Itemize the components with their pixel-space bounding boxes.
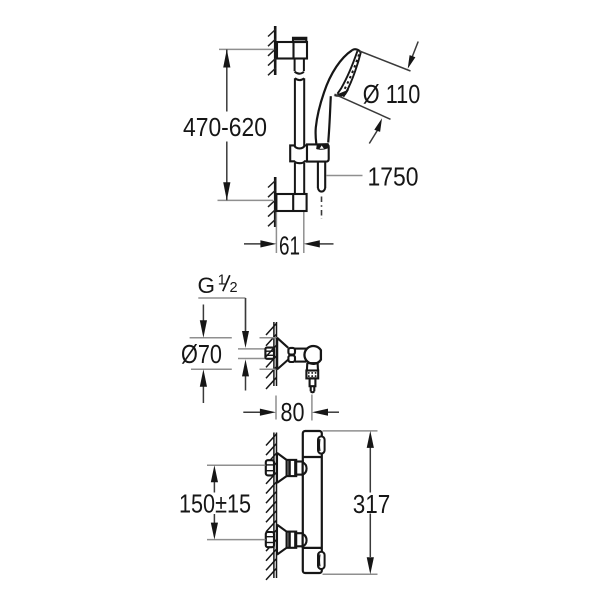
svg-text:317: 317 <box>353 491 391 519</box>
svg-text:61: 61 <box>279 232 300 260</box>
svg-text:Ø 110: Ø 110 <box>363 81 421 109</box>
svg-text:150±15: 150±15 <box>179 490 251 518</box>
svg-text:G: G <box>198 273 216 298</box>
svg-text:Ø70: Ø70 <box>181 341 222 369</box>
svg-text:80: 80 <box>281 399 305 427</box>
svg-text:470-620: 470-620 <box>183 114 267 142</box>
svg-text:2: 2 <box>230 280 238 296</box>
svg-text:1750: 1750 <box>368 163 419 191</box>
